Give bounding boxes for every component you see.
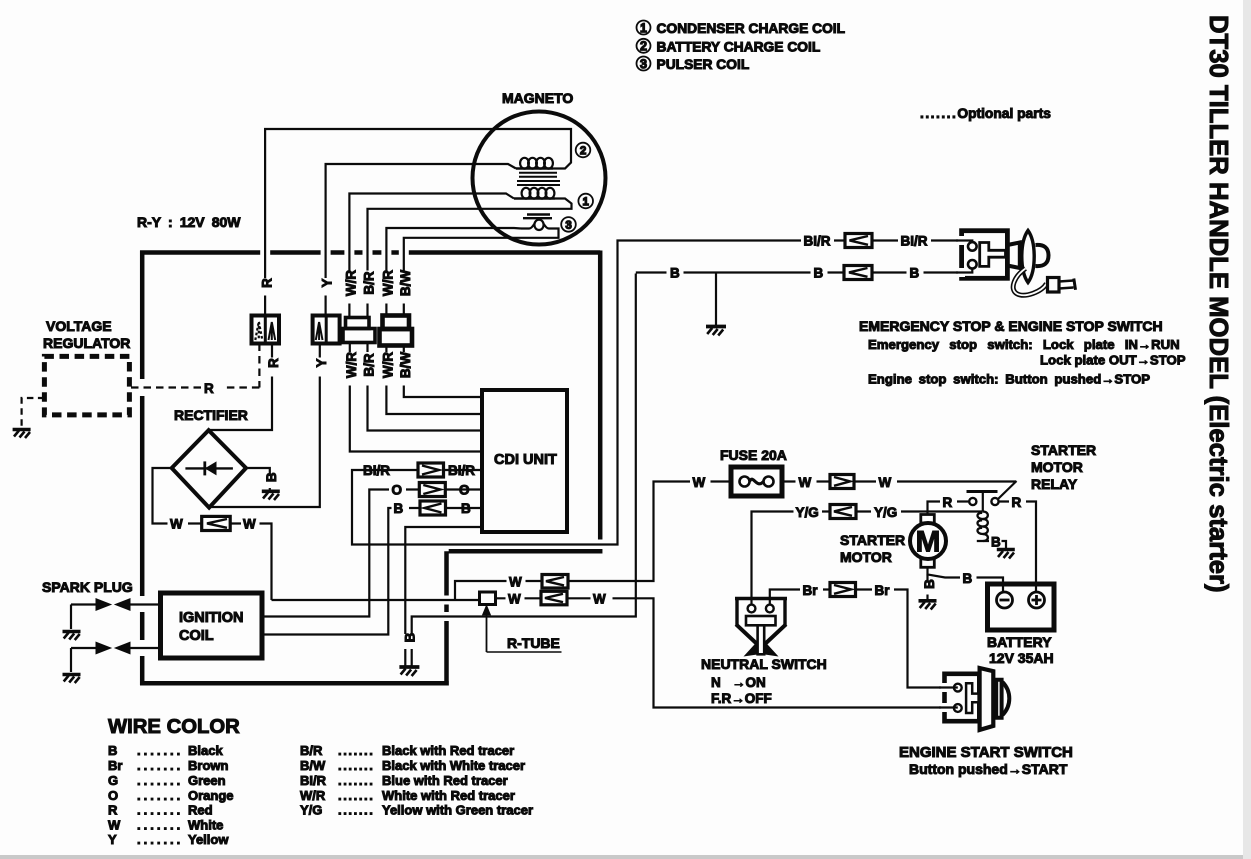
label circle 2: [576, 143, 591, 158]
wire O CDI to ignition coil: [262, 490, 482, 617]
svg-text:O: O: [459, 483, 470, 498]
relay contact circles: [969, 498, 998, 505]
svg-text:O: O: [108, 788, 118, 803]
svg-text:W/R: W/R: [380, 270, 395, 296]
wire R connector to rectifier: [209, 344, 272, 431]
svg-text:CDI UNIT: CDI UNIT: [494, 452, 557, 468]
svg-text:R: R: [108, 803, 118, 818]
svg-text:.......: .......: [137, 743, 183, 758]
connector O CDI: [419, 483, 445, 497]
svg-text:FUSE 20A: FUSE 20A: [720, 447, 787, 463]
svg-text:BI/R: BI/R: [363, 463, 390, 478]
spark plug 1 wire and gap: [71, 599, 161, 629]
svg-text:STARTER: STARTER: [840, 532, 905, 548]
dashed wire R to voltage regulator: [130, 344, 260, 388]
svg-text:.......: .......: [137, 818, 183, 833]
connector W rectifier: [202, 516, 231, 530]
svg-text:B: B: [814, 266, 824, 281]
lanyard loop: [1013, 269, 1046, 296]
page edge shading bottom: [0, 855, 1251, 859]
connector R (two-cell): [252, 316, 280, 344]
svg-text:W: W: [509, 575, 522, 590]
svg-text:BI/R: BI/R: [300, 773, 327, 788]
lanyard cord stub: [1059, 279, 1076, 290]
svg-text:.......: .......: [137, 788, 183, 803]
wire Bl/R CDI to stop switch: [352, 241, 962, 545]
wire B CDI to ignition coil: [262, 508, 482, 635]
connector Bl/R stop: [845, 234, 872, 248]
svg-text:Br: Br: [803, 583, 819, 598]
svg-text:.......: .......: [137, 773, 183, 788]
svg-text:Green: Green: [188, 773, 226, 788]
battery box: [988, 584, 1055, 630]
engine frame top edge: [140, 250, 600, 255]
svg-text:.......Optional parts: .......Optional parts: [920, 106, 1051, 121]
svg-text:12V 35AH: 12V 35AH: [989, 650, 1054, 666]
wire Br neutral switch to start switch: [770, 590, 946, 688]
rectifier diode: [185, 461, 233, 475]
label circle 3: [561, 217, 576, 232]
svg-text:White: White: [188, 818, 223, 833]
svg-text:.......: .......: [338, 773, 374, 788]
condenser charge coil (1) winding: [514, 188, 555, 199]
connector B CDI: [420, 501, 446, 515]
svg-text:B: B: [963, 571, 973, 586]
page edge shading right: [1243, 0, 1251, 859]
CDI ground: [399, 667, 419, 676]
svg-text:Blue with Red tracer: Blue with Red tracer: [382, 773, 508, 788]
pulser coil (3) core lines: [523, 215, 552, 219]
wire B stop-switch ground leg: [412, 274, 636, 667]
voltage regulator dashed box: [44, 356, 129, 415]
wire Y/G relay coil top: [752, 512, 983, 605]
svg-text:W: W: [243, 517, 256, 532]
relay armature bar: [967, 490, 998, 493]
svg-text:MOTOR: MOTOR: [840, 549, 892, 565]
svg-text:Brown: Brown: [188, 758, 229, 773]
svg-text:Br: Br: [108, 758, 122, 773]
svg-text:.......: .......: [338, 758, 374, 773]
wire B/R condenser coil right to connector: [368, 199, 572, 318]
start switch button: [996, 680, 1001, 718]
svg-text:Black with Red tracer: Black with Red tracer: [382, 743, 514, 758]
svg-text:R: R: [943, 495, 953, 510]
connector Y left-cell pin: [316, 322, 323, 340]
wire R relay left to motor: [928, 502, 970, 515]
svg-text:W: W: [593, 592, 606, 607]
svg-text:B/R: B/R: [300, 743, 323, 758]
spark plug 2 wire and gap: [71, 642, 161, 672]
svg-text:B/W: B/W: [300, 758, 326, 773]
svg-text:F.R→OFF: F.R→OFF: [711, 691, 772, 706]
svg-text:VOLTAGE: VOLTAGE: [46, 318, 112, 334]
spark plug 1 ground: [63, 632, 81, 641]
svg-text:Y: Y: [314, 358, 329, 367]
svg-text:B: B: [670, 266, 680, 281]
svg-text:R: R: [204, 381, 214, 396]
connector Y/G: [830, 505, 856, 519]
svg-text:Yellow with Green tracer: Yellow with Green tracer: [382, 803, 533, 818]
svg-text:MAGNETO: MAGNETO: [502, 90, 573, 106]
wire color column 2: [300, 743, 533, 818]
svg-text:R-Y : 12V 80W: R-Y : 12V 80W: [137, 214, 241, 230]
wire W/R-2 to CDI: [386, 346, 482, 415]
starter motor bottom terminal: [921, 559, 935, 568]
legend circle 1: [637, 21, 651, 35]
svg-text:PULSER COIL: PULSER COIL: [657, 57, 750, 72]
svg-text:3: 3: [640, 57, 647, 71]
svg-text:2: 2: [580, 145, 586, 157]
svg-text:Y/G: Y/G: [796, 505, 819, 520]
svg-text:W: W: [879, 475, 892, 490]
svg-text:BI/R: BI/R: [448, 463, 475, 478]
svg-text:WIRE COLOR: WIRE COLOR: [108, 716, 240, 738]
svg-text:Red: Red: [188, 803, 213, 818]
engine frame bottom edge: [140, 681, 449, 686]
svg-text:NEUTRAL SWITCH: NEUTRAL SWITCH: [701, 656, 827, 672]
wire Y connector to rectifier bottom: [209, 344, 320, 508]
wire B CDI ground: [405, 527, 482, 666]
start switch contact tee: [966, 683, 979, 713]
rectifier ground: [262, 491, 280, 500]
svg-text:Y: Y: [108, 832, 117, 847]
svg-text:SPARK PLUG: SPARK PLUG: [42, 579, 133, 595]
svg-text:B: B: [461, 501, 471, 516]
battery charge coil (2) winding: [516, 158, 553, 169]
start switch button cap: [1003, 682, 1010, 715]
svg-text:BI/R: BI/R: [804, 234, 831, 249]
svg-text:IGNITION: IGNITION: [179, 610, 243, 626]
svg-text:B: B: [991, 535, 1001, 550]
relay ground: [997, 550, 1015, 559]
svg-text:1: 1: [640, 21, 647, 35]
fuse element: [740, 477, 774, 487]
connector pair W/R B/R lower: [343, 329, 375, 343]
svg-text:DT30 TILLER HANDLE MODEL (Elec: DT30 TILLER HANDLE MODEL (Electric start…: [1204, 15, 1232, 593]
ignition coil box: [161, 593, 263, 658]
wire B stop switch line: [636, 271, 962, 273]
battery minus terminal: [997, 592, 1013, 608]
wire W fuse to relay: [782, 480, 1016, 482]
connector pair W/R B/R upper: [346, 318, 370, 329]
stop switch lock plate: [1022, 231, 1034, 283]
connector W lower: [541, 591, 567, 605]
label circle 1: [578, 194, 593, 209]
connector B stop: [844, 266, 872, 280]
svg-text:White with Red tracer: White with Red tracer: [382, 788, 515, 803]
lanyard end fitting: [1048, 278, 1060, 293]
svg-text:M: M: [916, 526, 941, 559]
wire W/R condenser coil to connector: [349, 194, 514, 318]
svg-text:CONDENSER CHARGE COIL: CONDENSER CHARGE COIL: [657, 21, 846, 36]
svg-text:B: B: [108, 743, 117, 758]
engine frame left edge: [140, 251, 145, 686]
svg-text:R-TUBE: R-TUBE: [507, 635, 560, 651]
svg-text:B: B: [394, 501, 404, 516]
svg-text:B/R: B/R: [362, 271, 377, 295]
relay blade: [998, 481, 1017, 500]
svg-text:B: B: [264, 472, 279, 482]
relay armature stem: [982, 493, 984, 511]
svg-text:.......: .......: [338, 743, 374, 758]
wire Y from magneto coil2 left: [326, 164, 516, 316]
svg-text:B: B: [910, 266, 920, 281]
svg-text:RELAY: RELAY: [1031, 476, 1078, 492]
svg-text:O: O: [392, 483, 403, 498]
CDI unit box: [482, 390, 567, 532]
wire B/R to CDI: [368, 343, 483, 431]
svg-text:.......: .......: [338, 788, 374, 803]
stop B ground stub: [715, 273, 717, 326]
stop switch contact tee: [980, 243, 1006, 267]
neutral switch wings: [744, 642, 779, 657]
svg-text:Y: Y: [320, 278, 335, 287]
wire W/R to CDI: [350, 343, 482, 452]
stop switch terminal stubs: [956, 241, 972, 273]
connector Bl/R CDI: [418, 463, 444, 477]
stop switch collar: [1007, 243, 1019, 269]
connector Br: [830, 583, 856, 597]
svg-text:R: R: [266, 358, 281, 368]
relay coil bottom tick and B wire: [977, 541, 1006, 548]
wire R from magneto coil2 to R connector: [265, 129, 571, 316]
svg-text:W/R: W/R: [344, 352, 359, 378]
svg-text:COIL: COIL: [179, 628, 214, 644]
core laminations: [517, 173, 560, 185]
connector Y (two-cell): [313, 316, 340, 344]
svg-text:.......: .......: [137, 832, 183, 847]
spark plug 2 ground: [63, 675, 81, 684]
svg-text:BATTERY: BATTERY: [987, 634, 1052, 650]
svg-text:MOTOR: MOTOR: [1031, 459, 1083, 475]
wire B motor to battery minus: [928, 567, 1004, 592]
rectifier bridge diamond: [172, 430, 246, 507]
svg-text:Lock plate OUT→STOP: Lock plate OUT→STOP: [1040, 353, 1186, 368]
relay coil: [978, 512, 988, 542]
magneto circle: [473, 112, 606, 245]
connector W fuse: [830, 475, 854, 489]
connector R left-cell dashed pin: [255, 322, 262, 341]
svg-text:W/R: W/R: [343, 270, 358, 296]
stop B ground: [706, 327, 726, 336]
svg-text:B/W: B/W: [398, 352, 413, 379]
starter motor top terminal: [921, 515, 935, 524]
stop switch terminals: [968, 242, 977, 269]
R-TUBE arrow: [483, 607, 561, 653]
start switch terminals: [954, 684, 962, 712]
wire W rectifier to connector: [153, 468, 272, 600]
pulser coil (3) winding: [521, 220, 556, 230]
fuse box: [731, 467, 782, 496]
svg-text:ENGINE START SWITCH: ENGINE START SWITCH: [899, 744, 1073, 761]
svg-text:Y/G: Y/G: [300, 803, 322, 818]
svg-text:Black: Black: [188, 743, 223, 758]
regulator ground dashed wire: [22, 398, 45, 427]
neutral switch body: [735, 597, 787, 644]
svg-text:W: W: [170, 517, 183, 532]
wire R relay right to battery: [999, 502, 1036, 593]
svg-text:B/W: B/W: [398, 270, 413, 297]
svg-text:B: B: [922, 579, 937, 589]
svg-text:Emergency stop switch: Lock pl: Emergency stop switch: Lock plate IN→RUN: [868, 337, 1180, 352]
svg-text:.......: .......: [137, 758, 183, 773]
svg-text:Button pushed→START: Button pushed→START: [909, 761, 1068, 777]
wire B/W to CDI: [404, 346, 482, 398]
svg-text:Yellow: Yellow: [188, 832, 229, 847]
svg-text:W: W: [108, 818, 121, 833]
svg-text:1: 1: [583, 196, 589, 208]
svg-text:R: R: [1012, 495, 1022, 510]
svg-text:W: W: [508, 592, 521, 607]
svg-text:Y/G: Y/G: [874, 505, 897, 520]
svg-text:R: R: [260, 278, 275, 288]
battery plus terminal: [1029, 592, 1045, 608]
svg-text:STARTER: STARTER: [1031, 442, 1096, 458]
svg-text:Br: Br: [875, 583, 891, 598]
svg-text:W: W: [799, 475, 812, 490]
neutral switch terminals: [748, 605, 774, 613]
svg-text:Orange: Orange: [188, 788, 234, 803]
svg-text:Engine stop switch: Button pus: Engine stop switch: Button pushed→STOP: [868, 372, 1150, 387]
engine start switch body: [945, 674, 980, 721]
svg-text:RECTIFIER: RECTIFIER: [174, 407, 248, 423]
regulator ground: [13, 430, 31, 439]
svg-text:G: G: [108, 773, 118, 788]
svg-text:BI/R: BI/R: [901, 234, 928, 249]
svg-text:.......: .......: [338, 803, 374, 818]
svg-text:B: B: [403, 632, 418, 642]
svg-text:W: W: [693, 475, 706, 490]
connector W upper: [542, 575, 568, 589]
svg-text:W/R: W/R: [300, 788, 326, 803]
wire W ignition feed to R-TUBE: [272, 599, 480, 601]
R-TUBE square: [480, 592, 496, 605]
svg-text:W/R: W/R: [380, 352, 395, 378]
svg-text:3: 3: [565, 219, 571, 231]
wire W lower to start switch: [496, 598, 946, 707]
connector pair W/R B/W lower: [380, 329, 413, 346]
wire B motor ground: [926, 575, 928, 600]
motor ground: [919, 601, 937, 610]
svg-text:2: 2: [640, 39, 647, 53]
wire W upper branch to fuse: [455, 482, 731, 601]
wire B/W pulser right to connector: [404, 229, 559, 316]
svg-text:.......: .......: [137, 803, 183, 818]
start switch bezel plate: [980, 668, 994, 730]
stop switch button cap: [1036, 245, 1049, 266]
wire W/R pulser to connector: [386, 228, 521, 316]
legend circle 3: [637, 57, 651, 71]
neutral switch plunger tee: [746, 616, 776, 654]
engine frame right step: [447, 251, 601, 686]
svg-text:REGULATOR: REGULATOR: [43, 335, 130, 351]
wire color column 1: [108, 743, 234, 847]
svg-text:BATTERY CHARGE COIL: BATTERY CHARGE COIL: [657, 39, 821, 54]
start switch terminal stubs: [939, 688, 958, 708]
emergency stop switch housing: [962, 231, 1008, 279]
legend circle 2: [637, 39, 651, 53]
wire rectifier B to ground: [246, 468, 270, 490]
svg-text:B/R: B/R: [362, 353, 377, 377]
svg-text:N →ON: N →ON: [711, 675, 766, 690]
connector R right-cell pin: [269, 322, 276, 340]
svg-text:EMERGENCY STOP & ENGINE STOP S: EMERGENCY STOP & ENGINE STOP SWITCH: [859, 318, 1163, 334]
connector pair W/R B/W upper: [383, 316, 410, 330]
svg-text:Black with White tracer: Black with White tracer: [382, 758, 525, 773]
starter motor circle: [910, 523, 946, 559]
